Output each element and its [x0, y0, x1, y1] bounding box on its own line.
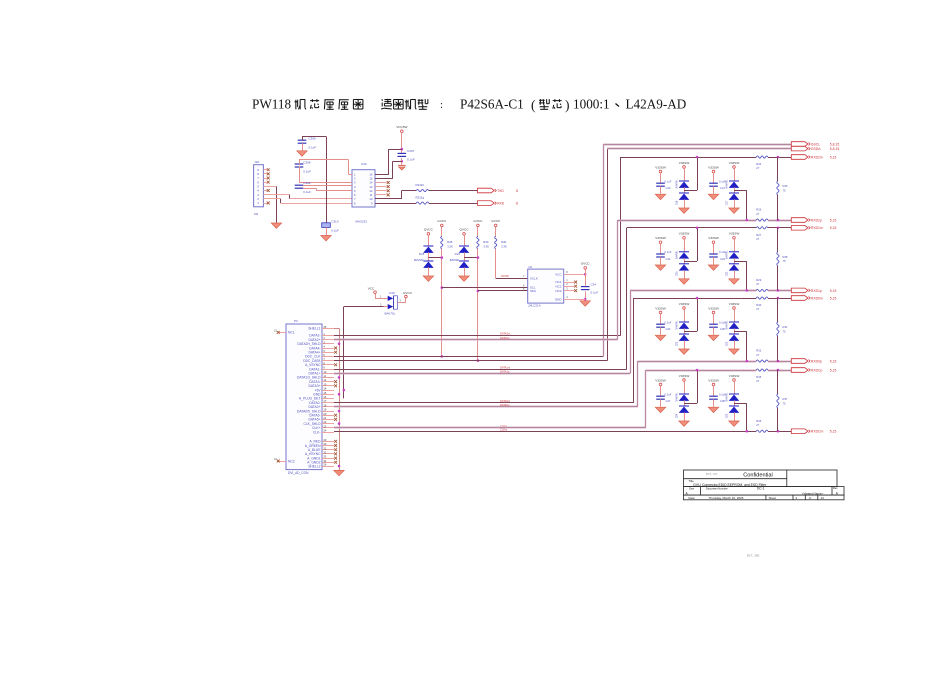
svg-text:NC3: NC3 — [555, 289, 561, 293]
svg-text:RXDCm: RXDCm — [811, 430, 824, 434]
svg-text:D25: D25 — [726, 413, 729, 418]
svg-text:A_BLUE: A_BLUE — [308, 448, 321, 452]
svg-text:D17: D17 — [726, 200, 729, 205]
svg-text:NC1: NC1 — [288, 331, 295, 335]
svg-text:V33SW: V33SW — [708, 165, 719, 169]
svg-text:3.3K: 3.3K — [483, 245, 489, 249]
svg-text:P42S6A-C1: P42S6A-C1 — [460, 97, 524, 112]
svg-text::: : — [440, 99, 443, 111]
svg-text:Sheet: Sheet — [769, 496, 777, 500]
svg-text:5,8,15: 5,8,15 — [830, 142, 840, 146]
svg-text:3.3K: 3.3K — [447, 245, 453, 249]
svg-text:VCLK: VCLK — [530, 277, 538, 281]
svg-text:GSDA: GSDA — [811, 147, 821, 151]
svg-text:GVCC: GVCC — [403, 291, 413, 295]
svg-text:DATA3-: DATA3- — [309, 380, 320, 384]
svg-text:<Variant Name>: <Variant Name> — [802, 491, 824, 495]
svg-text:V33SW: V33SW — [708, 378, 719, 382]
svg-text:CLK_SHLD: CLK_SHLD — [303, 422, 321, 426]
svg-text:C308: C308 — [303, 160, 311, 164]
svg-text:0.1uF: 0.1uF — [309, 145, 317, 149]
svg-text:BCT,INC: BCT,INC — [747, 555, 760, 558]
svg-text:PW118: PW118 — [252, 97, 291, 112]
svg-text:D21: D21 — [726, 271, 729, 276]
svg-text:DVI-I Connector,EDID EEPROM, a: DVI-I Connector,EDID EEPROM, and ESD Fil… — [693, 483, 767, 487]
svg-text:BAV99L: BAV99L — [726, 320, 729, 330]
svg-text:RXDCp: RXDCp — [811, 368, 823, 372]
svg-text:V33SW: V33SW — [729, 302, 740, 306]
svg-text:DATA5+: DATA5+ — [308, 418, 320, 422]
svg-text:Confidential: Confidential — [743, 473, 773, 479]
svg-text:D15: D15 — [389, 291, 395, 295]
svg-text:BCT, INC: BCT, INC — [706, 472, 718, 476]
svg-text:0.1uF: 0.1uF — [331, 228, 339, 232]
svg-text:A_GREEN: A_GREEN — [305, 444, 321, 448]
svg-text:VCC: VCC — [368, 286, 375, 290]
svg-text:DATA0/5_SHLD: DATA0/5_SHLD — [297, 409, 321, 413]
svg-text:C306: C306 — [309, 137, 317, 141]
svg-text:RXD2p: RXD2p — [811, 218, 822, 222]
svg-text:R311b: R311b — [416, 183, 425, 187]
svg-text:BAV99L: BAV99L — [726, 250, 729, 260]
svg-text:Thursday, March 10, 2005: Thursday, March 10, 2005 — [709, 496, 744, 500]
svg-text:5,15: 5,15 — [830, 296, 837, 300]
svg-text:R28: R28 — [447, 240, 453, 244]
svg-text:DATA3+: DATA3+ — [308, 384, 320, 388]
svg-text:DATA5-: DATA5- — [309, 414, 320, 418]
svg-text:15: 15 — [369, 177, 373, 181]
svg-text:D20: D20 — [676, 271, 679, 276]
svg-text:BAV70L: BAV70L — [385, 312, 396, 316]
svg-text:DC-1: DC-1 — [757, 487, 765, 491]
svg-text:BAV99L: BAV99L — [450, 258, 460, 262]
svg-text:V33SW: V33SW — [655, 306, 666, 310]
svg-text:CLK-: CLK- — [313, 430, 321, 434]
svg-text:A_VSYNC: A_VSYNC — [305, 363, 321, 367]
svg-text:SDA: SDA — [530, 289, 536, 293]
svg-text:C34: C34 — [591, 283, 597, 287]
svg-text:8: 8 — [516, 189, 518, 193]
svg-text:DVI_AD_CON: DVI_AD_CON — [288, 471, 309, 475]
svg-text:H_PLUG_DET: H_PLUG_DET — [299, 397, 321, 401]
svg-text:of: of — [809, 496, 812, 500]
svg-text:A_RED: A_RED — [310, 440, 322, 444]
svg-text:5,15: 5,15 — [830, 359, 837, 363]
svg-text:5,15: 5,15 — [830, 430, 837, 434]
svg-text:13: 13 — [369, 185, 373, 189]
svg-text:5,15: 5,15 — [830, 368, 837, 372]
svg-text:V33SW: V33SW — [708, 306, 719, 310]
svg-text:3.3K: 3.3K — [501, 245, 507, 249]
svg-text:V33SW: V33SW — [708, 236, 719, 240]
svg-text:BAV99L: BAV99L — [676, 392, 679, 402]
svg-text:DATA1+: DATA1+ — [308, 372, 320, 376]
svg-text:VCC5W: VCC5W — [396, 125, 407, 129]
svg-text:GSCL: GSCL — [811, 142, 820, 146]
svg-text:SHELL2: SHELL2 — [308, 464, 320, 468]
svg-text:0.1uF: 0.1uF — [591, 291, 599, 295]
svg-text:DDC_CLK: DDC_CLK — [305, 355, 321, 359]
svg-text:CLK+: CLK+ — [312, 426, 320, 430]
svg-text:10: 10 — [369, 197, 373, 201]
svg-text:DATA1/3_SHLD: DATA1/3_SHLD — [297, 376, 321, 380]
svg-text:12: 12 — [369, 189, 373, 193]
svg-text:R30: R30 — [501, 240, 507, 244]
svg-text:BAV99L: BAV99L — [726, 392, 729, 402]
svg-text:5,15: 5,15 — [830, 289, 837, 293]
svg-text:V33SW: V33SW — [679, 302, 690, 306]
svg-text:V33SW: V33SW — [679, 374, 690, 378]
svg-text:DDC_DATA: DDC_DATA — [303, 359, 321, 363]
svg-text:1000:1: 1000:1 — [573, 97, 610, 112]
svg-text:V33SW: V33SW — [655, 378, 666, 382]
svg-text:DATA4+: DATA4+ — [308, 351, 320, 355]
svg-text:VCC: VCC — [555, 273, 562, 277]
svg-text:13: 13 — [821, 496, 825, 500]
svg-text:5,15: 5,15 — [830, 218, 837, 222]
svg-text:C310: C310 — [331, 220, 339, 224]
svg-text:V33SW: V33SW — [729, 232, 740, 236]
svg-text:V33SW: V33SW — [655, 236, 666, 240]
svg-text:D23: D23 — [726, 341, 729, 346]
svg-text:14: 14 — [369, 181, 373, 185]
svg-text:Title: Title — [689, 479, 695, 483]
svg-text:GND: GND — [555, 297, 563, 301]
svg-text:BAV99L: BAV99L — [676, 320, 679, 330]
svg-text:D19: D19 — [455, 252, 461, 256]
svg-text:V33SW: V33SW — [729, 161, 740, 165]
svg-text:U40: U40 — [361, 162, 367, 166]
svg-text:0.1uF: 0.1uF — [303, 190, 311, 194]
svg-text:V33SW: V33SW — [679, 161, 690, 165]
svg-text:L42A9-AD: L42A9-AD — [626, 97, 687, 112]
svg-text:V33SW: V33SW — [655, 165, 666, 169]
svg-text:P3: P3 — [294, 319, 298, 323]
svg-text:BAV99L: BAV99L — [676, 250, 679, 260]
svg-text:24LC21A: 24LC21A — [528, 304, 541, 308]
svg-text:Date:: Date: — [689, 496, 696, 500]
svg-text:QVCC: QVCC — [460, 228, 470, 232]
svg-text:C309: C309 — [303, 181, 311, 185]
svg-text:0.1uF: 0.1uF — [303, 170, 311, 174]
svg-text:RXD2m: RXD2m — [811, 155, 823, 159]
svg-text:SHELL1: SHELL1 — [308, 327, 320, 331]
svg-text:D9: D9 — [254, 212, 258, 216]
svg-text:D18: D18 — [419, 252, 425, 256]
svg-text:TXD: TXD — [497, 189, 504, 193]
svg-text:DATA1-: DATA1- — [309, 367, 320, 371]
svg-text:DATA2+: DATA2+ — [308, 338, 320, 342]
svg-text:D22: D22 — [676, 341, 679, 346]
svg-text:RXD0m: RXD0m — [811, 296, 823, 300]
svg-text:8: 8 — [516, 201, 518, 205]
svg-text:DATA4-: DATA4- — [309, 346, 320, 350]
svg-text:5,8,15: 5,8,15 — [830, 147, 840, 151]
svg-text:GVCC: GVCC — [437, 219, 447, 223]
svg-text:D16: D16 — [676, 200, 679, 205]
svg-text:DATA0+: DATA0+ — [308, 405, 320, 409]
svg-text:5,15: 5,15 — [830, 226, 837, 230]
svg-text:DATA0-: DATA0- — [309, 401, 320, 405]
svg-text:BAV99L: BAV99L — [414, 258, 424, 262]
svg-text:(: ( — [531, 98, 536, 113]
svg-text:RXD0p: RXD0p — [811, 359, 822, 363]
svg-text:U2: U2 — [528, 265, 532, 269]
svg-text:C307: C307 — [407, 149, 415, 153]
svg-text:RXD1m: RXD1m — [811, 226, 823, 230]
svg-text:QVCC: QVCC — [424, 228, 434, 232]
svg-text:5,15: 5,15 — [830, 155, 837, 159]
svg-text:NC1: NC1 — [555, 280, 561, 284]
svg-text:SVOK: SVOK — [501, 274, 509, 278]
svg-text:GVCC: GVCC — [473, 219, 483, 223]
svg-text:V33SW: V33SW — [729, 374, 740, 378]
svg-text:A_GND1: A_GND1 — [307, 456, 320, 460]
svg-text:11: 11 — [370, 193, 373, 197]
svg-text:R29: R29 — [483, 240, 489, 244]
svg-text:A_HSYNC: A_HSYNC — [305, 452, 321, 456]
svg-text:NC2: NC2 — [555, 284, 561, 288]
svg-text:GVCC: GVCC — [491, 219, 501, 223]
svg-text:NC2: NC2 — [288, 459, 295, 463]
svg-text:V33SW: V33SW — [679, 232, 690, 236]
svg-text:R311g: R311g — [416, 196, 425, 200]
svg-text:+5V: +5V — [315, 388, 322, 392]
svg-text:D24: D24 — [676, 413, 679, 418]
svg-text:BAV99L: BAV99L — [676, 179, 679, 189]
svg-text:DATA2-: DATA2- — [309, 334, 320, 338]
svg-text:): ) — [565, 98, 570, 113]
svg-text:A_GND2: A_GND2 — [307, 461, 320, 465]
svg-text:GVCC: GVCC — [581, 262, 591, 266]
svg-text:16: 16 — [369, 173, 373, 177]
svg-text:GND: GND — [313, 393, 321, 397]
svg-text:MAX232: MAX232 — [356, 219, 368, 223]
svg-text:0.1uF: 0.1uF — [407, 157, 415, 161]
svg-text:BAV99L: BAV99L — [726, 179, 729, 189]
svg-text:RXD: RXD — [497, 201, 505, 205]
svg-text:J16: J16 — [254, 160, 259, 164]
svg-text:DATA2H_SHLD: DATA2H_SHLD — [297, 342, 321, 346]
svg-text:RXD1p: RXD1p — [811, 289, 822, 293]
